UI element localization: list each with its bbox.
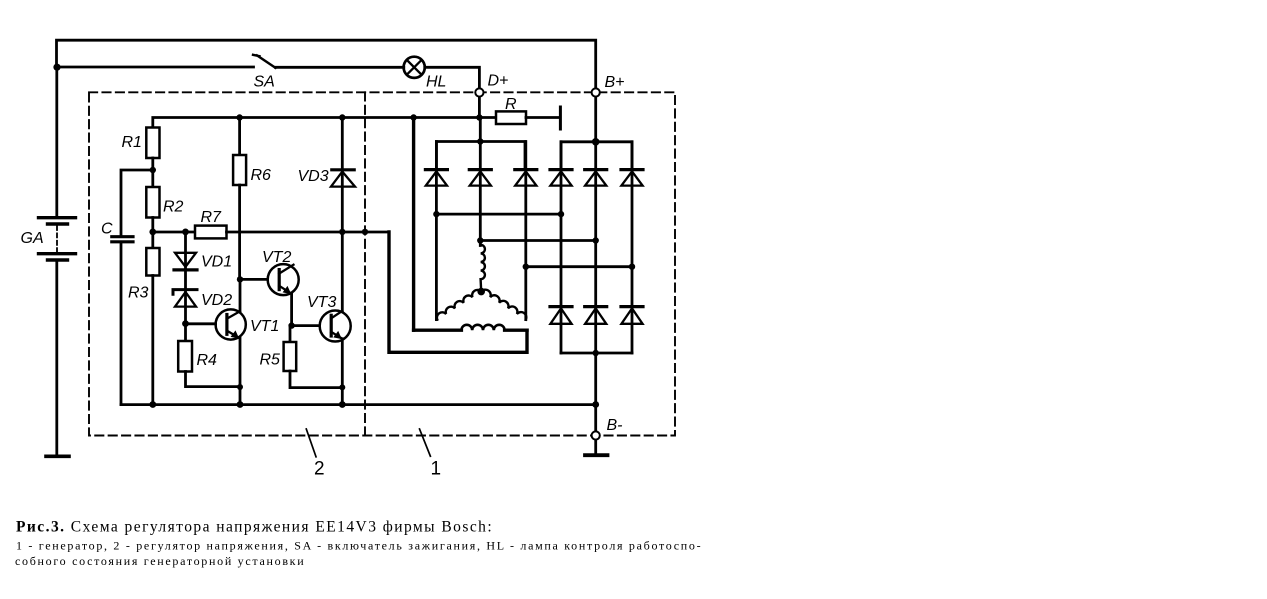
svg-text:R5: R5 — [260, 352, 281, 369]
resistor R5 — [284, 342, 297, 371]
wire B- drop — [594, 353, 597, 431]
wire SA to HL — [276, 66, 404, 69]
leader line 2 — [306, 428, 316, 457]
stator winding A diagonal coil — [437, 290, 481, 320]
wire node to VT1 base — [186, 322, 216, 325]
svg-text:R2: R2 — [163, 199, 184, 216]
leader line 1 — [419, 428, 431, 457]
diode VD1 — [175, 253, 196, 267]
wire field to D+ rail — [412, 118, 415, 331]
resistor R1 — [146, 128, 159, 159]
svg-text:VT2: VT2 — [262, 249, 291, 266]
svg-text:B+: B+ — [605, 74, 625, 91]
phase wire A — [436, 213, 561, 216]
phase wire C — [526, 265, 632, 268]
svg-text:R3: R3 — [128, 285, 149, 302]
svg-text:C: C — [101, 221, 113, 238]
svg-text:Рис.3. Схема регулятора напряж: Рис.3. Схема регулятора напряжения ЕЕ14V… — [16, 519, 493, 536]
battery GA plate short bottom — [48, 258, 68, 261]
node B- — [592, 431, 600, 439]
capacitor C plate top — [112, 235, 133, 238]
svg-text:2: 2 — [314, 459, 325, 480]
wire VT3 emitter to rail — [341, 339, 344, 405]
svg-text:HL: HL — [426, 73, 446, 90]
wire D+ riser — [478, 97, 482, 241]
switch SA — [253, 55, 276, 68]
wire diode4 drop — [560, 142, 563, 353]
wire regulator output to field — [389, 232, 527, 352]
wire R5 top — [289, 326, 292, 342]
stator winding B vertical coil — [481, 245, 485, 292]
svg-text:R: R — [505, 96, 517, 113]
wire R to brush bar — [526, 116, 559, 119]
node B+ — [592, 88, 600, 96]
transistor VT1 — [216, 309, 246, 339]
diode VD3 — [332, 168, 354, 171]
wire D+ feeder rail y117 — [153, 118, 496, 128]
rail D+ diode trio — [436, 142, 525, 169]
wire left rail battery top — [55, 67, 58, 217]
junction dots — [53, 64, 60, 71]
wire VD1 branch — [184, 232, 187, 324]
battery GA cell link dashed — [56, 226, 58, 252]
svg-text:R7: R7 — [201, 209, 223, 226]
svg-text:R6: R6 — [251, 167, 272, 184]
ground bar B- — [585, 453, 608, 457]
wire R2 to R3 — [151, 218, 154, 249]
svg-text:1 - генератор, 2 - регулятор н: 1 - генератор, 2 - регулятор напряжения,… — [16, 539, 702, 553]
wire R3 to bottom rail — [151, 276, 154, 405]
rail B- trio — [561, 352, 632, 355]
diode bridge positive aux 1 — [425, 168, 447, 171]
wire phase A drop — [435, 142, 438, 320]
svg-text:D+: D+ — [488, 73, 509, 90]
svg-text:VT3: VT3 — [307, 294, 336, 311]
diode bridge positive aux 2 — [469, 168, 491, 171]
resistor R — [496, 111, 526, 124]
brush terminal bar — [559, 107, 562, 129]
battery GA plate short top — [48, 222, 68, 225]
wire VT2 emitter — [290, 294, 293, 326]
battery GA plate long bottom — [39, 252, 76, 255]
wire VD3 vertical — [341, 118, 344, 311]
transistor VT2 — [268, 264, 299, 295]
battery GA plate long top — [39, 216, 76, 219]
bottom rail — [121, 403, 596, 406]
lamp HL — [404, 57, 425, 78]
resistor R3 — [146, 248, 159, 276]
svg-text:SA: SA — [254, 74, 275, 91]
svg-text:GA: GA — [21, 230, 44, 247]
svg-text:VD3: VD3 — [298, 168, 329, 185]
stator winding C diagonal coil — [481, 290, 526, 320]
dashed divider region 2 — [364, 92, 366, 435]
wire phase C drop — [524, 142, 527, 320]
svg-text:VD1: VD1 — [201, 254, 232, 271]
wire R5 bottom — [290, 371, 342, 388]
resistor R7 — [195, 226, 227, 239]
diode bridge minus 5 — [585, 305, 607, 308]
wire VT1 emitter to rail — [239, 338, 242, 405]
zener VD2 — [173, 290, 197, 295]
field winding LG rotor — [505, 329, 527, 332]
wire VT3 base — [292, 324, 320, 327]
wire diode6 drop — [631, 142, 634, 353]
wire VT1 collector — [239, 279, 242, 311]
svg-text:1: 1 — [431, 459, 442, 480]
resistor R6 — [238, 118, 241, 156]
wire C to bottom rail — [120, 244, 123, 405]
wire VT2 base — [240, 278, 268, 281]
wire battery to SA — [57, 66, 254, 69]
wire node to R4 — [184, 324, 187, 341]
diode bridge plus 6 — [621, 168, 643, 171]
chassis terminal left — [46, 454, 69, 458]
diode bridge plus 4 — [550, 168, 572, 171]
rail B+ trio — [561, 142, 632, 169]
diode bridge positive aux 3 — [515, 168, 537, 171]
phase wire B — [480, 239, 595, 242]
node D+ — [475, 88, 483, 96]
resistor R4 — [178, 341, 192, 372]
dashed box generator region 1 — [89, 92, 675, 435]
svg-text:R1: R1 — [122, 134, 142, 151]
capacitor C plate bottom — [112, 240, 133, 243]
wire phase B drop — [479, 241, 482, 246]
wire y232 right of R7 — [227, 231, 390, 234]
transistor VT3 — [320, 311, 351, 342]
svg-text:R4: R4 — [197, 352, 218, 369]
wire R4 to emitter junction — [186, 372, 241, 387]
wire divider base y232 left — [153, 231, 195, 234]
wire HL to D+ — [425, 67, 480, 88]
wire top rail — [57, 40, 596, 88]
svg-text:VT1: VT1 — [250, 318, 279, 335]
svg-text:VD2: VD2 — [201, 292, 232, 309]
svg-text:собного состояния генераторной: собного состояния генераторной установки — [15, 554, 305, 568]
wire B- to ground — [594, 440, 597, 454]
diode bridge plus 5 — [585, 168, 607, 171]
wire R1 to R2 — [151, 158, 154, 187]
wire diode5 drop — [594, 97, 597, 353]
diode bridge minus 6 — [621, 305, 643, 308]
wire battery to chassis — [55, 260, 58, 455]
diode bridge minus 4 — [550, 305, 572, 308]
wire node to C — [121, 170, 153, 235]
resistor R2 — [146, 187, 159, 218]
svg-text:B-: B- — [607, 417, 623, 434]
